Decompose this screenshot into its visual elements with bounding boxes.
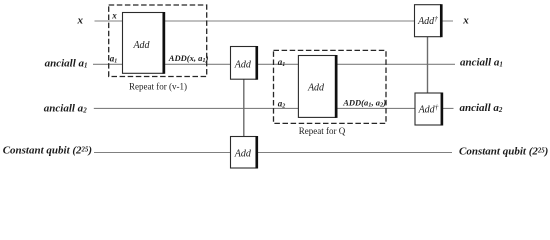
caption Repeat for (v-1) [129,82,187,92]
port label a1 on U3 [278,57,286,68]
svg-text:a1: a1 [278,57,286,68]
left label anciall a1 [45,58,88,70]
Add gate U3 label [307,82,325,93]
Add gate U3 box (inside Repeat for Q) [298,55,336,118]
port label x on U1 [111,10,117,20]
svg-text:anciall a1: anciall a1 [45,58,88,70]
Add gate U4 label [234,148,252,159]
dashed repeat box "Repeat for (v-1)" [109,5,207,77]
port label a1 on U1 [110,54,118,65]
Add gate U4 box (bottom, on Constant qubit) [231,136,257,169]
right label anciall a1 [460,57,503,69]
Add-dagger gate U5 box (top right, on x) [415,4,442,37]
svg-text:Add: Add [132,40,150,51]
right label Constant qubit (2^25) [459,145,548,157]
svg-text:Add: Add [307,82,325,93]
left label Constant qubit (2^25) [3,145,92,157]
left label x [77,15,84,27]
svg-text:anciall a2: anciall a2 [44,103,87,115]
left label anciall a2 [44,103,87,115]
svg-text:Add: Add [234,148,252,159]
right label anciall a2 [460,102,503,114]
Add gate U1 label [132,40,150,51]
svg-text:a2: a2 [278,98,286,109]
wire x (qubit line 1) [95,20,454,22]
svg-text:x: x [77,15,84,27]
svg-text:Add: Add [234,59,252,70]
Add gate U2 label [234,59,252,70]
caption Repeat for Q [299,126,346,136]
wire anciall a1 (qubit line 2) [93,63,455,65]
Add gate U2 box (middle, on anciall a1) [231,46,257,80]
svg-text:Constant qubit (225): Constant qubit (225) [459,145,548,157]
svg-text:a1: a1 [110,54,118,65]
output label ADD(x,a1) [168,53,209,64]
svg-text:x: x [462,15,469,27]
right label x [462,15,469,27]
output label ADD(a1,a2) [342,98,386,109]
svg-text:Repeat for Q: Repeat for Q [299,126,346,136]
Add-dagger gate U5 label [417,14,438,27]
wire Constant qubit (qubit line 4) [94,152,452,154]
Add gate U1 box [123,12,164,74]
svg-text:ADD(x, a1): ADD(x, a1) [168,53,209,64]
svg-text:ADD(a1, a2): ADD(a1, a2) [342,98,386,109]
svg-text:anciall a2: anciall a2 [460,102,503,114]
svg-text:Constant qubit (225): Constant qubit (225) [3,145,92,157]
Add-dagger gate U6 label [418,102,439,115]
svg-text:anciall a1: anciall a1 [460,57,503,69]
port label a2 on U3 [278,98,286,109]
wire anciall a2 (qubit line 3) [94,107,454,109]
svg-text:Repeat for (v-1): Repeat for (v-1) [129,82,187,92]
wire vertical connector between middle Add gates [243,64,245,152]
Add-dagger gate U6 box (right, on anciall a2) [415,93,442,126]
wire vertical connector between Add-dagger gates [427,21,429,108]
dashed repeat box "Repeat for Q" [274,50,387,123]
svg-text:x: x [111,10,117,20]
